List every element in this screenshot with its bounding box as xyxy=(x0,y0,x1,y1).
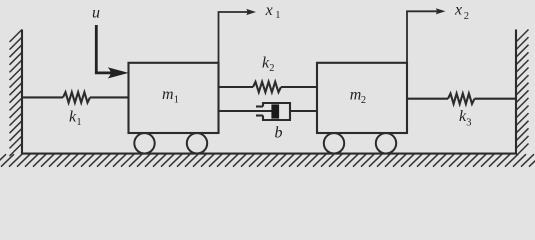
svg-text:u: u xyxy=(92,4,100,21)
svg-text:1: 1 xyxy=(174,94,179,105)
svg-text:1: 1 xyxy=(76,117,81,128)
svg-text:b: b xyxy=(275,124,283,141)
svg-text:m: m xyxy=(350,86,362,103)
svg-text:x: x xyxy=(454,2,462,19)
svg-text:m: m xyxy=(162,86,174,103)
svg-text:x: x xyxy=(265,2,273,19)
svg-text:3: 3 xyxy=(466,117,471,128)
svg-text:2: 2 xyxy=(464,11,469,22)
svg-text:2: 2 xyxy=(361,95,366,106)
svg-text:2: 2 xyxy=(269,63,274,74)
svg-text:1: 1 xyxy=(275,10,280,21)
